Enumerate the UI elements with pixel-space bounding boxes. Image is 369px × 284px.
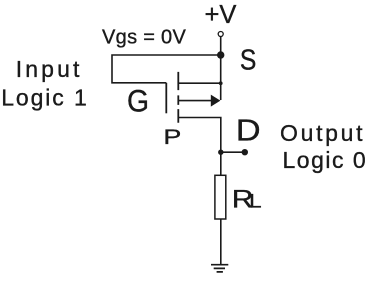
svg-text:L: L (249, 191, 261, 212)
svg-text:Output: Output (280, 120, 365, 146)
svg-text:P: P (163, 125, 181, 149)
svg-text:S: S (240, 44, 256, 76)
svg-text:D: D (236, 113, 261, 147)
svg-text:Input: Input (16, 56, 83, 82)
svg-text:+V: +V (205, 1, 237, 29)
svg-text:Logic 0: Logic 0 (283, 147, 368, 173)
svg-text:Vgs = 0V: Vgs = 0V (102, 27, 186, 49)
svg-text:Logic 1: Logic 1 (1, 85, 88, 111)
svg-text:G: G (127, 84, 149, 119)
